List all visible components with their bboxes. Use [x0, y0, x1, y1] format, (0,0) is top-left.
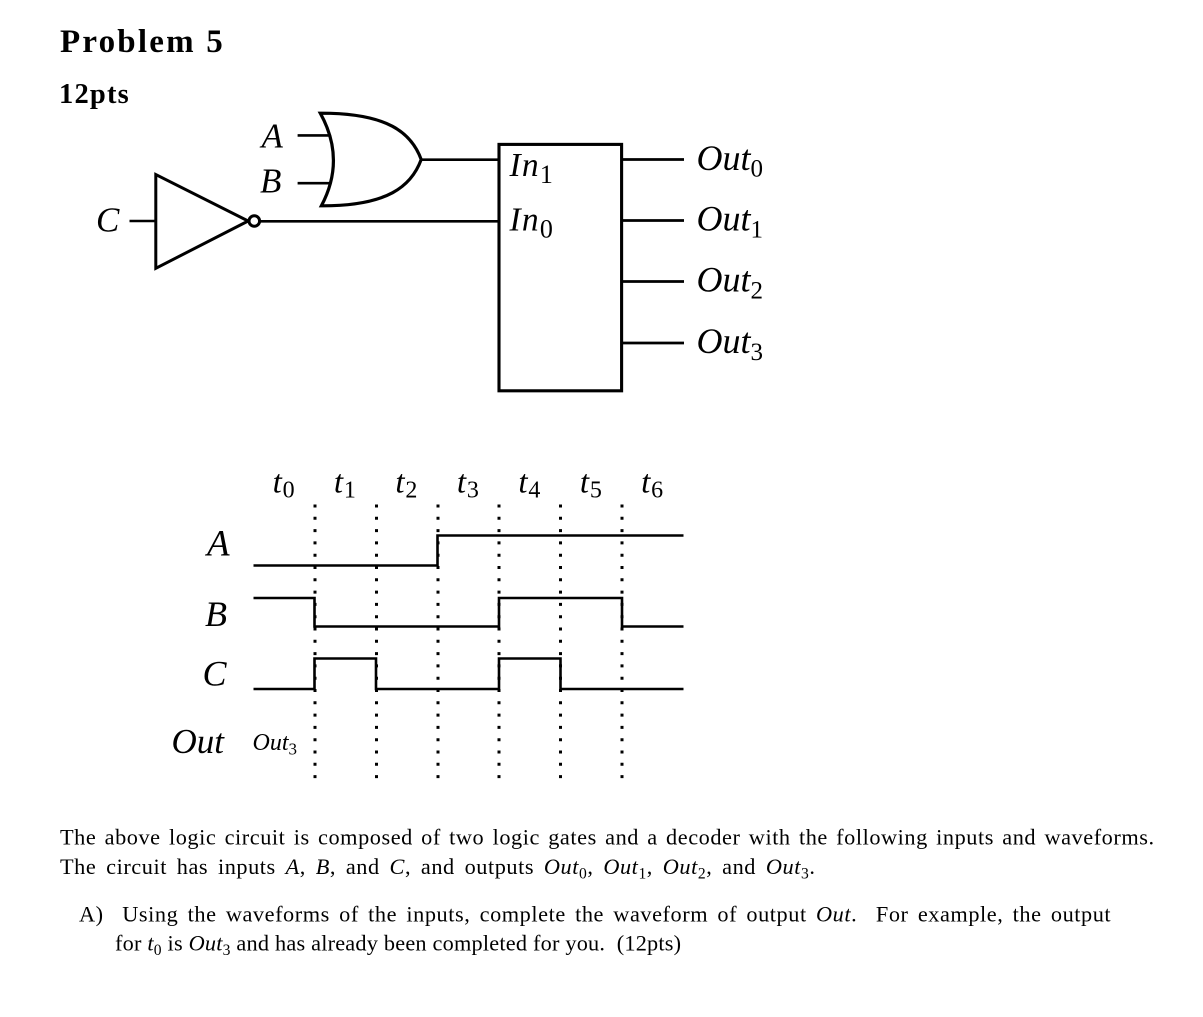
svg-text:B: B	[260, 162, 281, 201]
svg-text:Out1: Out1	[697, 199, 764, 244]
svg-text:C: C	[203, 654, 228, 694]
dotted gridline t0/t1	[314, 505, 317, 784]
svg-text:t1: t1	[334, 465, 357, 504]
wire Out3 stub	[622, 342, 684, 345]
svg-text:A) Using the waveforms of the: A) Using the waveforms of the inputs, co…	[79, 902, 1111, 927]
svg-text:In1: In1	[509, 147, 555, 189]
wire Out1 stub	[622, 219, 684, 222]
wire OR gate output to decoder In1	[421, 158, 500, 161]
svg-text:B: B	[205, 594, 227, 634]
svg-text:Out: Out	[172, 722, 226, 761]
wire Out0 stub	[622, 158, 684, 161]
inverter U1 output bubble	[249, 216, 260, 227]
svg-text:A: A	[260, 117, 284, 156]
svg-text:A: A	[204, 524, 230, 565]
wire Out2 stub	[622, 280, 684, 283]
svg-text:Problem 5: Problem 5	[60, 24, 225, 60]
dotted gridline t5/t6	[621, 505, 624, 784]
dotted gridline t3/t4	[498, 505, 501, 784]
wire A input stub to OR gate	[298, 134, 332, 137]
waveform trace A	[254, 536, 684, 566]
svg-text:Out3: Out3	[697, 321, 764, 366]
svg-text:In0: In0	[509, 202, 555, 244]
wire B input stub to OR gate	[298, 182, 332, 185]
svg-text:The circuit has inputs A, B, a: The circuit has inputs A, B, and C, and …	[60, 854, 815, 883]
wire C to inverter	[130, 220, 158, 223]
svg-text:t2: t2	[395, 465, 418, 504]
svg-text:for t0 is Out3 and has already: for t0 is Out3 and has already been comp…	[115, 931, 681, 960]
or-gate U2	[320, 113, 421, 206]
svg-text:t5: t5	[580, 465, 603, 504]
dotted gridline t4/t5	[559, 505, 562, 784]
svg-text:t3: t3	[457, 465, 480, 504]
wire inverter output to decoder In0	[260, 220, 501, 223]
svg-text:t4: t4	[518, 465, 541, 504]
svg-text:t0: t0	[273, 465, 296, 504]
dotted gridline t1/t2	[375, 505, 378, 784]
dotted gridline t2/t3	[437, 505, 440, 784]
waveform trace C	[254, 659, 684, 690]
waveform trace B	[254, 598, 684, 627]
svg-text:C: C	[96, 201, 120, 240]
svg-text:12pts: 12pts	[59, 79, 130, 110]
svg-text:t6: t6	[641, 465, 664, 504]
svg-text:Out3: Out3	[253, 730, 298, 759]
svg-text:The above logic circuit is com: The above logic circuit is composed of t…	[60, 825, 1155, 850]
svg-text:Out2: Out2	[697, 260, 764, 305]
decoder U3 box	[499, 144, 622, 390]
svg-text:Out0: Out0	[697, 138, 764, 183]
inverter U1 (NOT gate triangle)	[156, 175, 248, 269]
